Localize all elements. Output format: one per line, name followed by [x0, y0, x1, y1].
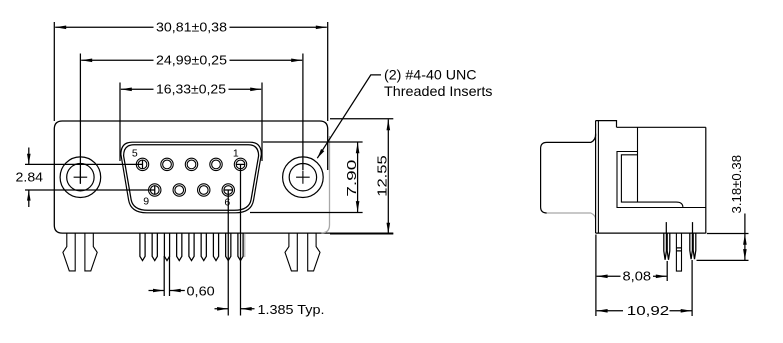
dim 0,60 extension lines [164, 256, 169, 296]
dim 8,08 / 10,92 left extension line [595, 235, 597, 317]
side view pin row C upper line [692, 222, 694, 233]
boardlock left pair, left leg [63, 233, 75, 271]
svg-text:2.84: 2.84 [16, 170, 44, 184]
recess inner line [621, 155, 683, 208]
flange right edge grey shade [321, 136, 329, 233]
dim 3.18 extension lines [697, 234, 749, 261]
pin contacts bottom row (pins 9,8,7,6) [149, 184, 235, 196]
svg-text:5: 5 [132, 147, 138, 159]
dim 2.84 arrow lines [28, 148, 30, 208]
svg-text:16,33±0,25: 16,33±0,25 [156, 83, 226, 97]
dim 12.55 dimension line [387, 119, 389, 233]
grey shade right of last pin [244, 234, 246, 257]
barrel bottom edge (grey) [547, 213, 596, 220]
svg-text:9: 9 [143, 195, 149, 207]
svg-text:30,81±0,38: 30,81±0,38 [156, 21, 227, 35]
svg-text:8,08: 8,08 [623, 270, 652, 284]
boardlock right pair, right leg [308, 233, 320, 271]
solder pins row (9 straight pins, front view) [140, 233, 243, 261]
barrel (mating shell, side view) [541, 134, 596, 213]
svg-text:0,60: 0,60 [187, 284, 215, 298]
pin 1 center tick [236, 163, 244, 165]
svg-text:10,92: 10,92 [627, 304, 669, 318]
svg-text:6: 6 [224, 196, 230, 208]
boardlock right pair, left leg [285, 233, 297, 271]
svg-text:1.385 Typ.: 1.385 Typ. [258, 303, 325, 317]
recess outer line [617, 152, 706, 208]
dim 7.90 arrows [356, 142, 360, 153]
dim 3.18 dimension line [744, 214, 746, 261]
dim 10,92 dimension line [597, 310, 692, 312]
dim 30,81 extension lines [54, 22, 327, 121]
pin 5 center tick [142, 160, 144, 168]
mounting hole left (outer ring) [60, 157, 101, 198]
side view pin A (front row, two profiles) [664, 233, 667, 260]
side view pin C (rear row, two profiles) [690, 233, 693, 259]
D-sub shell outer outline [121, 142, 261, 213]
mounting hole left (inner ring) [67, 164, 94, 191]
pin 9 center tick [154, 186, 156, 194]
callout leader line [317, 75, 381, 158]
housing inner vertical line [637, 127, 639, 202]
dim 24,99 dimension line [81, 59, 302, 61]
dim 12.55 extension lines [330, 119, 393, 234]
dim 1.385 dimension line segments [215, 308, 255, 310]
svg-text:3.18±0.38: 3.18±0.38 [730, 155, 744, 214]
extension line from pin 6 down to 1.385 dim [227, 190, 229, 316]
flange top tab [596, 121, 617, 128]
mounting hole right (outer ring) [283, 157, 324, 198]
dim 10,92 arrows [597, 309, 608, 313]
dim 7.90 dimension line [357, 142, 359, 212]
dim 30,81 arrows [55, 26, 66, 30]
side view pin row A upper line [665, 222, 667, 233]
D-sub shell inner outline [124, 145, 259, 211]
dim 7.90 extension lines [250, 142, 363, 213]
mounting hole right center cross [296, 171, 310, 184]
side view boardlock [676, 233, 681, 271]
housing right edge [705, 127, 707, 233]
dim 2.84 arrows [27, 154, 31, 164]
flange body outline (front view) [54, 121, 393, 233]
dim 12.55 arrows [387, 119, 391, 130]
housing top edge [617, 126, 706, 128]
dim 30,81 dimension line [55, 26, 327, 28]
mounting hole left center cross [74, 171, 88, 184]
flange plate (side view, back face) [597, 121, 599, 234]
svg-text:12.55: 12.55 [375, 155, 389, 197]
pin 6 center tick [224, 189, 232, 191]
dim 0,60 arrows [153, 289, 164, 293]
svg-text:(2) #4-40 UNC: (2) #4-40 UNC [384, 68, 477, 83]
boardlock left pair, right leg [85, 233, 97, 271]
dim 8,08 arrows [597, 275, 608, 279]
dim 24,99 extension lines [80, 54, 303, 184]
svg-text:Threaded Inserts: Threaded Inserts [384, 84, 493, 99]
dim 16,33 extension lines [120, 83, 262, 162]
mounting hole right (inner ring) [289, 164, 316, 191]
dim 10,92 right extension line [691, 260, 693, 316]
dim 2.84 extension lines (pin row lines) [25, 164, 155, 190]
svg-text:1: 1 [233, 147, 239, 159]
side view boardlock barb lines [676, 248, 681, 251]
dim 16,33 dimension line [121, 88, 261, 90]
dim 1.385 arrows [217, 307, 228, 311]
dim 0,60 dimension line segments [149, 290, 185, 292]
housing bottom edge [596, 232, 706, 234]
flange plate (side view, front face) [595, 121, 597, 234]
pin contacts top row (pins 5,4,3,2,1) [136, 158, 246, 170]
dim 16,33 arrows [121, 88, 132, 92]
svg-text:7.90: 7.90 [345, 160, 359, 197]
svg-text:24,99±0,25: 24,99±0,25 [156, 54, 227, 68]
dim 3.18 arrows [743, 234, 747, 245]
dim 8,08 right extension line [666, 261, 668, 281]
dim 24,99 arrows [81, 59, 92, 63]
dim 8,08 dimension line [597, 275, 667, 277]
extension line from pin 1 down to 1.385 dim [240, 164, 242, 315]
callout leader arrowhead [317, 149, 324, 158]
